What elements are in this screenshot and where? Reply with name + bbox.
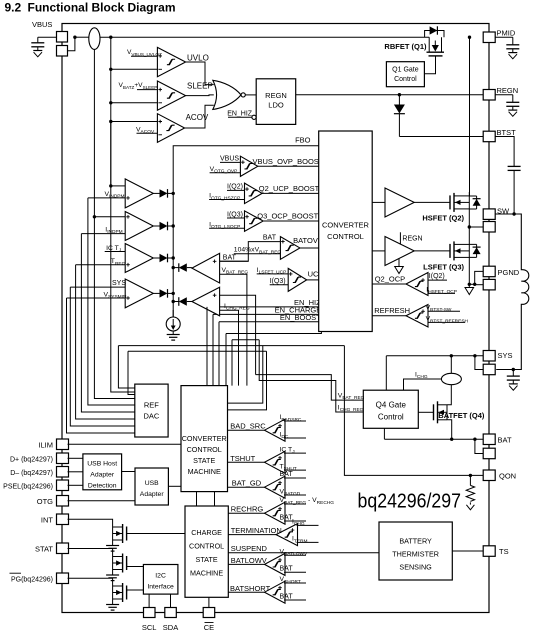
wire BATSHORT input 2	[284, 599, 306, 601]
wire EN_HIZ stub with bubble	[228, 116, 252, 118]
svg-text:REGN: REGN	[497, 86, 519, 95]
ground PGND arrow	[468, 284, 470, 287]
svg-text:LSFET (Q3): LSFET (Q3)	[423, 263, 464, 272]
ground INT fet	[112, 540, 114, 545]
wire ref nest 1	[67, 298, 135, 433]
diode error bus A	[153, 192, 159, 194]
svg-text:bq24296/297: bq24296/297	[358, 490, 462, 513]
svg-text:OTG: OTG	[37, 497, 53, 506]
wire V_INDPM top input	[111, 185, 125, 187]
svg-text:BATLOWV: BATLOWV	[231, 556, 267, 565]
wire V_BTST_REFRESH input	[428, 321, 465, 323]
wire I2C to SDA	[170, 594, 172, 607]
svg-text:Q4 Gate: Q4 Gate	[376, 401, 407, 410]
wire UVLO output to NOR	[186, 62, 214, 85]
wire HSFET drain	[468, 192, 470, 196]
wire BATSHORT output	[228, 591, 264, 593]
wire REGN LDO output to REGN pin	[296, 94, 484, 96]
wire SW internal to pin	[469, 226, 483, 228]
svg-text:PG(bq24296): PG(bq24296)	[11, 577, 53, 584]
svg-text:Interface: Interface	[147, 584, 174, 591]
svg-text:TERMINATION: TERMINATION	[231, 526, 282, 535]
wire BATOVP output	[300, 247, 319, 249]
comparator SLEEP	[157, 81, 185, 110]
wire I(Q2) input	[227, 189, 245, 191]
svg-text:BAT_GD: BAT_GD	[232, 479, 262, 488]
wire V_OTG_OVP input	[210, 172, 241, 174]
junction UVLO minus on rail	[109, 68, 112, 71]
wire ref nest 7 vbus rail	[111, 186, 135, 392]
wire VBUS ovp input	[220, 161, 240, 163]
wire nest horizontal h2	[232, 339, 259, 341]
wire VBUS sense rail lower	[110, 122, 112, 186]
svg-text:D+ (bq24297): D+ (bq24297)	[10, 456, 53, 463]
comparator battery voltage error amp	[192, 253, 220, 283]
pin REGN	[483, 90, 495, 101]
pin SYS 2	[483, 364, 495, 375]
pin PSEL	[57, 480, 69, 491]
svg-text:REF: REF	[144, 401, 159, 410]
wire PGND pin1	[475, 271, 484, 284]
wire PG to open drain	[68, 578, 113, 586]
wire Q4 to BATFET gate	[418, 411, 433, 413]
wire V_BAT_REG to Q4	[256, 375, 364, 401]
svg-text:REFRESH: REFRESH	[374, 306, 410, 315]
wire EN_CHARGE	[213, 313, 319, 315]
block REF DAC	[135, 384, 168, 437]
wire BAT pin2 jog	[475, 439, 483, 453]
block USB Host Adapter Detection	[83, 454, 122, 490]
wire I_LSFET_UCP input	[257, 273, 289, 275]
wire BAD_SRC output	[228, 429, 265, 431]
wire REFRESH output	[372, 315, 406, 317]
wire SYS pin2 jog	[475, 356, 483, 370]
svg-text:LDO: LDO	[268, 101, 284, 110]
pin TS	[483, 546, 495, 557]
wire BAT to BATOVP plus	[220, 242, 281, 262]
svg-text:SLEEP: SLEEP	[187, 81, 213, 90]
wire EN_HIZ down	[206, 307, 208, 386]
wire RECHRG output	[228, 512, 264, 514]
comparator V_INDPM error amp	[125, 179, 153, 208]
wire BAD_SRC input 2	[284, 437, 306, 439]
svg-text:CONTROL: CONTROL	[187, 445, 222, 454]
svg-text:EN_BOOST: EN_BOOST	[280, 313, 321, 322]
wire BAT_GD output	[228, 486, 265, 488]
block Q4 Gate Control	[363, 390, 418, 428]
wire V_SYSMIN input	[67, 297, 126, 299]
svg-text:CHARGE: CHARGE	[191, 528, 222, 537]
comparator I_INDPM error amp	[125, 212, 153, 241]
svg-text:BATTERY: BATTERY	[399, 537, 432, 546]
pin BAT 1	[483, 434, 495, 445]
wire TSHUT input 2	[284, 469, 306, 471]
ground LS driver	[398, 258, 400, 266]
pin ILIM	[57, 439, 69, 450]
svg-text:INT: INT	[41, 515, 54, 524]
junction LSFET source	[468, 283, 471, 286]
svg-text:Q1 Gate: Q1 Gate	[392, 67, 419, 74]
wire EN_BOOST down	[218, 322, 220, 386]
pin QON	[483, 470, 495, 481]
junction PGND node	[473, 283, 476, 286]
wire LSFET drain to SW	[468, 227, 470, 244]
svg-text:DAC: DAC	[143, 412, 159, 421]
junction SYS rail at batfet	[450, 354, 453, 357]
comparator RECHRG	[265, 502, 286, 524]
wire ref nest 3	[76, 265, 135, 419]
IC package outline	[62, 24, 489, 613]
diode error bus C	[153, 257, 159, 259]
svg-text:THERMISTER: THERMISTER	[392, 550, 439, 559]
wire usb host to usb adapter	[122, 471, 135, 473]
wire D+ input	[68, 457, 83, 459]
pin INT	[57, 514, 69, 525]
svg-text:BTST: BTST	[497, 128, 517, 137]
wire PGND node	[469, 283, 474, 285]
wire SYS input	[70, 286, 125, 288]
wire PMID to HSFET drain	[469, 37, 471, 196]
wire batfet source	[447, 420, 452, 439]
capacitor SYS bypass	[512, 368, 515, 371]
wire V_BAT_REG input	[220, 274, 247, 385]
wire UVLO minus input	[111, 68, 158, 70]
svg-text:Q2_OCP: Q2_OCP	[375, 275, 405, 284]
wire BAT_GD input 1	[284, 477, 306, 479]
svg-text:I(Q3): I(Q3)	[227, 211, 243, 218]
ground PG fet	[112, 599, 114, 604]
diode error bus E	[173, 267, 179, 269]
block CONVERTER CONTROL STATE MACHINE	[181, 386, 228, 492]
svg-text:BAT: BAT	[280, 593, 294, 600]
comparator ACOV	[157, 114, 184, 143]
wire I_OTG_LSOCP input	[209, 227, 244, 229]
wire BATSHORT input 1	[284, 582, 306, 584]
wire SYS to Q4 gate control	[385, 356, 387, 390]
wire ACOV top input	[111, 121, 158, 123]
svg-text:CONTROL: CONTROL	[189, 542, 224, 551]
comparator VBUS_OVP_BOOST	[240, 156, 257, 176]
wire I_HSFET_OCP input	[428, 292, 455, 294]
wire D- input	[68, 471, 83, 473]
svg-text:9.2: 9.2	[5, 1, 22, 15]
svg-text:USB: USB	[145, 480, 159, 487]
wire I_CHG_REG input	[220, 310, 239, 385]
transistor PG open-drain	[126, 586, 128, 600]
svg-text:CONVERTER: CONVERTER	[322, 221, 370, 230]
wire thermistor to TS pin	[452, 550, 483, 552]
svg-text:USB Host: USB Host	[87, 460, 117, 467]
svg-text:EN_HIZ: EN_HIZ	[227, 111, 253, 118]
wire VBUS sense vertical rail	[110, 37, 112, 186]
current sense ellipse I_CHG	[450, 356, 452, 374]
svg-text:CONTROL: CONTROL	[327, 232, 364, 241]
wire OTG	[68, 500, 136, 502]
capacitor REGN bypass	[495, 94, 513, 96]
svg-text:Functional Block Diagram: Functional Block Diagram	[28, 1, 176, 15]
wire converter to LS driver	[372, 250, 385, 252]
wire ref nest 8	[118, 346, 134, 388]
transistor STAT open-drain	[126, 556, 128, 570]
wire TSHUT output	[228, 461, 265, 463]
wire nest to conv sm right 2	[228, 351, 267, 410]
wire batfet drain	[447, 385, 451, 405]
block CHARGE CONTROL STATE MACHINE	[185, 506, 228, 597]
buffer HSFET driver	[385, 188, 414, 217]
diode error bus F	[173, 301, 179, 303]
junction ACOV input on rail	[109, 120, 112, 123]
svg-text:FBO: FBO	[295, 135, 311, 144]
svg-text:BAT: BAT	[280, 566, 294, 573]
wire IC TJ input	[105, 251, 126, 253]
comparator UCP	[288, 268, 307, 291]
svg-text:BAT: BAT	[263, 235, 277, 242]
svg-text:SUSPEND: SUSPEND	[231, 544, 268, 553]
comparator TERMINATION	[276, 524, 298, 546]
wire ILIM to conv sm	[68, 443, 182, 445]
svg-text:Q3_OCP_BOOST: Q3_OCP_BOOST	[257, 212, 318, 221]
svg-text:VBUS: VBUS	[220, 156, 239, 163]
pin D+	[57, 453, 69, 464]
wire Q2_UCP_BOOST output	[262, 192, 319, 194]
svg-text:QON: QON	[499, 471, 516, 480]
junction SYS rail at pin2 jog	[473, 354, 476, 357]
wire REGN tick	[399, 232, 401, 244]
svg-text:Q2_UCP_BOOST: Q2_UCP_BOOST	[259, 184, 320, 193]
svg-text:TSHUT: TSHUT	[230, 454, 255, 463]
svg-text:RECHRG: RECHRG	[231, 505, 264, 514]
pin BAT 2	[483, 448, 495, 459]
transistor INT open-drain	[126, 527, 128, 541]
wire Q4 block to BAT rail	[383, 428, 385, 439]
wire SYS rail internal	[386, 355, 483, 357]
wire VBUS_OVP_BOOST output	[258, 165, 319, 167]
wire I_CHG_REG to Q4	[259, 340, 363, 412]
junction SLEEP minus on rail	[109, 101, 112, 104]
wire Q3_OCP_BOOST output	[263, 220, 319, 222]
wire I_INDPM top input	[94, 216, 125, 218]
pin CE	[203, 608, 215, 618]
svg-text:REGN: REGN	[402, 236, 422, 243]
svg-text:I(Q2): I(Q2)	[227, 184, 243, 191]
wire BAT sense input	[220, 260, 249, 262]
junction VBUS sense rail	[109, 36, 112, 39]
wire BTST internal	[399, 136, 483, 138]
pin SW 2	[483, 222, 495, 233]
wire BAD_SRC input 1	[284, 420, 306, 422]
svg-text:BAT: BAT	[280, 471, 294, 478]
wire ref nest 2	[70, 287, 135, 426]
diode LSFET body	[469, 244, 476, 257]
pin VBUS 2	[57, 46, 68, 57]
svg-text:CE: CE	[204, 623, 214, 632]
pin PG	[57, 573, 69, 584]
svg-text:Adapter: Adapter	[140, 491, 165, 498]
pin PGND 1	[483, 266, 495, 277]
block Q1 Gate Control	[386, 62, 424, 87]
diode error bus D	[153, 292, 159, 294]
current sense ellipse on VBUS rail	[89, 28, 100, 50]
comparator V_SYSMIN error amp	[125, 279, 153, 308]
comparator BATLOWV	[265, 553, 286, 575]
comparator BAD_SRC	[265, 419, 286, 441]
buffer LSFET driver	[385, 237, 414, 266]
wire I_INDPM bottom input	[81, 233, 125, 235]
svg-text:HSFET (Q2): HSFET (Q2)	[422, 214, 464, 223]
capacitor PMID bypass	[495, 36, 513, 38]
capacitor VBUS input cap with ground	[38, 36, 57, 38]
svg-text:PSEL(bq24296): PSEL(bq24296)	[3, 483, 53, 490]
comparator BATOVP	[280, 237, 300, 260]
pin SDA	[165, 608, 177, 618]
wire TERMINATION input 2	[297, 541, 319, 543]
comparator Q2_UCP_BOOST	[245, 183, 263, 204]
svg-text:SYS: SYS	[498, 351, 513, 360]
pin PMID	[483, 32, 495, 43]
wire I_OTG_HSZCP input	[209, 199, 244, 201]
wire 104%xV_BAT_REG input	[234, 253, 281, 255]
svg-text:D– (bq24297): D– (bq24297)	[10, 470, 53, 477]
wire T_REG input	[76, 264, 126, 266]
wire RECHRG input 2	[284, 520, 306, 522]
svg-text:CONVERTER: CONVERTER	[182, 434, 227, 443]
wire EN_BOOST	[219, 321, 319, 323]
block REGN LDO	[256, 79, 296, 125]
pin PGND 2	[483, 279, 495, 290]
wire STAT fet gate	[127, 566, 144, 568]
svg-text:STATE: STATE	[196, 555, 218, 564]
svg-text:STAT: STAT	[35, 545, 53, 554]
svg-text:Control: Control	[394, 76, 417, 83]
wire TSHUT input 1	[284, 452, 306, 454]
wire UCP output	[307, 279, 319, 281]
wire BAT_GD input 2	[284, 494, 306, 496]
svg-text:BAT: BAT	[498, 436, 512, 445]
block BATTERY THERMISTER SENSING	[379, 522, 452, 580]
wire BATLOWV output	[228, 563, 264, 565]
svg-text:PMID: PMID	[497, 29, 516, 38]
svg-text:Control: Control	[378, 413, 404, 422]
wire ellipse sense vertical	[93, 49, 95, 216]
wire PSEL input	[68, 484, 83, 486]
pin OTG	[57, 496, 69, 507]
svg-text:SCL: SCL	[142, 623, 157, 632]
wire STAT to open drain	[68, 549, 113, 557]
wire charge amp plus input	[220, 295, 256, 374]
svg-text:MACHINE: MACHINE	[188, 467, 221, 476]
wire nest horizontal h1	[226, 332, 321, 334]
wire ACOV bottom input	[137, 132, 158, 134]
svg-text:BAD_SRC: BAD_SRC	[230, 422, 266, 431]
comparator Q3_OCP_BOOST	[245, 211, 264, 232]
svg-text:VBUS: VBUS	[32, 20, 52, 29]
wire conv sm to charge sm 2	[214, 492, 216, 506]
junction I_INDPM on ellipse line	[93, 215, 96, 218]
junction BAT rail at batfet	[450, 438, 453, 441]
comparator BAT_GD	[265, 476, 286, 498]
wire Q2_OCP output	[372, 283, 406, 285]
wire ref nest 4	[81, 234, 134, 412]
wire NOR output to REGN LDO	[245, 94, 256, 96]
wire charge sm to CE	[208, 597, 210, 607]
wire nest vertical h2 left	[231, 340, 233, 386]
wire ref nest 5	[88, 198, 135, 405]
svg-text:UVLO: UVLO	[187, 54, 209, 63]
capacitor bootstrap BTST-SW	[495, 137, 514, 167]
ground error bus	[172, 331, 174, 334]
wire BAT rail	[384, 438, 483, 440]
junction VBUS rail	[73, 36, 76, 39]
svg-text:Adapter: Adapter	[90, 471, 115, 478]
inductor L1	[496, 214, 529, 370]
resistor QON pullup	[469, 475, 471, 485]
current source error bus	[172, 310, 174, 317]
svg-text:Detection: Detection	[88, 482, 117, 489]
pin VBUS 1	[57, 32, 68, 43]
pin BTST	[483, 131, 495, 142]
wire INT to open drain	[68, 519, 113, 527]
wire UVLO plus input	[131, 55, 157, 57]
block USB Adapter	[135, 468, 168, 505]
svg-text:SYS: SYS	[112, 280, 126, 287]
wire LSFET source to PGND	[468, 257, 470, 284]
comparator thermal regulation error amp	[125, 244, 153, 273]
wire usb adapter to conv sm	[168, 485, 181, 487]
wire nest horizontal h3	[118, 345, 344, 347]
wire BATLOWV input 2	[284, 571, 306, 573]
wire PG fet gate	[127, 589, 144, 591]
junction PMID node	[468, 36, 471, 39]
wire ACOV output to NOR	[185, 105, 214, 128]
junction V_INDPM top on rail	[109, 184, 112, 187]
pin SW 1	[483, 209, 495, 220]
junction SW external node	[512, 212, 515, 215]
wire I(Q2) ocp input	[428, 279, 447, 281]
wire VBUS pin2 jog	[68, 37, 75, 51]
svg-text:ILIM: ILIM	[38, 440, 53, 449]
wire FBO	[173, 146, 319, 317]
gate NOR U1	[213, 80, 241, 109]
comparator REFRESH	[406, 305, 428, 328]
wire nest to conv sm right 1	[228, 346, 263, 404]
svg-text:RBFET (Q1): RBFET (Q1)	[384, 42, 427, 51]
svg-text:I(Q2): I(Q2)	[429, 273, 445, 280]
transistor HSFET Q2	[449, 195, 451, 209]
wire EN_HIZ	[207, 306, 319, 308]
comparator charge current error amp	[192, 287, 220, 316]
svg-text:PGND: PGND	[498, 268, 520, 277]
wire I_CHG tap	[404, 379, 442, 390]
wire EN_CHARGE down	[212, 314, 214, 385]
svg-text:VBUS_OVP_BOOST: VBUS_OVP_BOOST	[253, 157, 324, 166]
wire SUSPEND	[228, 552, 379, 554]
block I2C Interface	[143, 565, 178, 595]
wire I(Q3) ucp input	[270, 284, 289, 286]
svg-text:BAT: BAT	[223, 255, 237, 262]
wire TERMINATION output	[228, 534, 276, 536]
comparator BATSHORT	[265, 581, 286, 603]
wire INT fet gate	[127, 533, 185, 535]
diode D1 REGN to BTST	[398, 95, 400, 105]
svg-text:SDA: SDA	[163, 623, 178, 632]
comparator Q2_OCP	[406, 273, 428, 296]
svg-text:SENSING: SENSING	[399, 563, 432, 572]
wire RECHRG input 1	[284, 503, 306, 505]
wire LS driver to LSFET gate	[414, 250, 450, 252]
wire SLEEP minus input	[111, 102, 158, 104]
wire I2C to SCL	[148, 594, 150, 607]
svg-text:BATFET (Q4): BATFET (Q4)	[438, 411, 485, 420]
